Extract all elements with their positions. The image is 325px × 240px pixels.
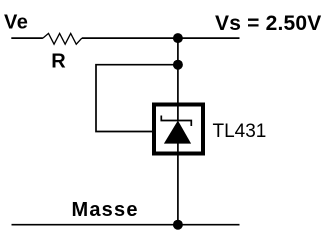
wire vertical from TL431 anode to ground wire bbox=[177, 144, 179, 225]
wire top-left from Ve to resistor bbox=[11, 37, 43, 39]
svg-text:Ve: Ve bbox=[4, 12, 28, 34]
junction node B (feedback tap) bbox=[173, 60, 183, 70]
svg-text:R: R bbox=[51, 50, 66, 72]
svg-text:Vs = 2.50V: Vs = 2.50V bbox=[215, 12, 322, 35]
junction node A (top wire) bbox=[173, 33, 183, 43]
svg-text:TL431: TL431 bbox=[213, 121, 267, 142]
resistor R bbox=[43, 33, 82, 44]
zener cathode bar with tabs bbox=[161, 116, 191, 127]
TL431 box U1 bbox=[154, 105, 203, 154]
svg-text:Masse: Masse bbox=[72, 199, 139, 221]
wire top from resistor to right end bbox=[82, 37, 240, 39]
junction node C (ground) bbox=[173, 220, 183, 230]
wire feedback from node B left, down, to reference pin bbox=[96, 65, 178, 132]
zener triangle (anode) bbox=[164, 121, 191, 144]
wire ground (Masse) bbox=[12, 224, 240, 226]
wire vertical from top wire to TL431 cathode bbox=[177, 38, 179, 120]
